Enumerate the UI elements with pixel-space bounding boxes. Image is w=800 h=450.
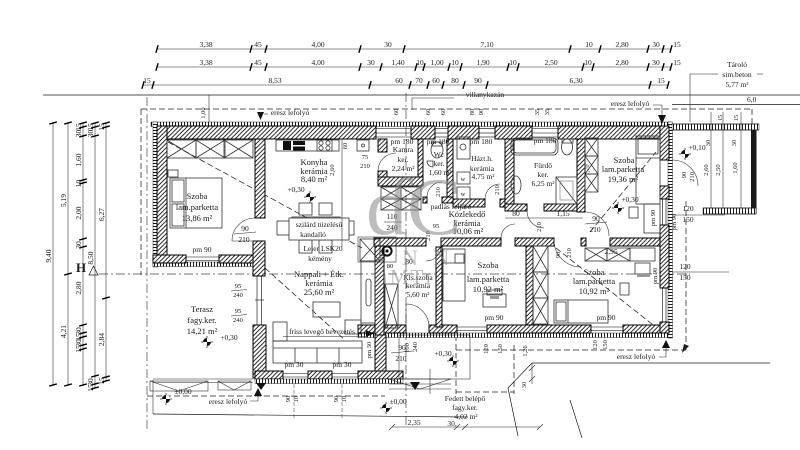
svg-text:25,60 m²: 25,60 m² [304, 287, 335, 297]
svg-text:15: 15 [717, 115, 724, 122]
svg-text:30: 30 [521, 382, 528, 389]
svg-text:95: 95 [235, 308, 242, 315]
svg-text:15: 15 [74, 345, 83, 353]
wall: kamra/wc partition [418, 139, 423, 177]
svg-text:120: 120 [592, 340, 599, 350]
svg-text:4,75 m²: 4,75 m² [471, 172, 495, 181]
svg-text:19,36 m²: 19,36 m² [608, 174, 639, 184]
svg-text:30: 30 [731, 140, 738, 147]
svg-text:friss levegő bevezetés: friss levegő bevezetés [289, 327, 355, 336]
svg-text:30: 30 [74, 130, 83, 138]
svg-text:210: 210 [566, 248, 573, 258]
bed3 door [554, 240, 581, 267]
svg-text:2,60: 2,60 [703, 164, 710, 175]
svg-text:eresz lefolyó: eresz lefolyó [271, 108, 310, 117]
wall: foyer west / nappali east [375, 246, 384, 335]
svg-text:eresz lefolyó: eresz lefolyó [617, 352, 656, 361]
terrain line bottom right [532, 362, 770, 364]
svg-text:6,0: 6,0 [747, 95, 757, 104]
svg-text:2,50: 2,50 [715, 164, 722, 175]
svg-text:15: 15 [673, 40, 681, 49]
wc door [427, 182, 442, 197]
terrain line bottom left [153, 414, 468, 417]
svg-text:35: 35 [534, 109, 541, 116]
svg-text:120: 120 [679, 262, 691, 271]
foyer main door [405, 304, 407, 327]
svg-text:pm 180: pm 180 [391, 137, 414, 146]
svg-text:ıMTı: ıMTı [382, 265, 433, 289]
svg-text:15: 15 [97, 377, 106, 385]
svg-text:10: 10 [416, 58, 424, 67]
svg-text:2,50: 2,50 [544, 58, 557, 67]
svg-text:1,90: 1,90 [476, 58, 489, 67]
svg-text:150: 150 [497, 344, 504, 354]
storage 6,0 line [672, 104, 800, 106]
svg-text:150: 150 [679, 273, 691, 282]
svg-text:1,60: 1,60 [74, 153, 83, 166]
svg-text:Leier LSK20: Leier LSK20 [303, 244, 343, 253]
svg-text:lam.parketta: lam.parketta [176, 202, 218, 212]
furdo door [527, 211, 544, 228]
svg-text:eresz lefolyó: eresz lefolyó [209, 397, 248, 406]
svg-text:2,95: 2,95 [604, 247, 617, 256]
svg-text:pm 30: pm 30 [366, 342, 373, 358]
section line horizontal H [99, 273, 690, 275]
svg-text:4,02 m²: 4,02 m² [454, 412, 478, 421]
svg-text:3,38: 3,38 [199, 40, 212, 49]
svg-text:pm 90: pm 90 [193, 245, 212, 254]
wall: nappali east at porch [375, 335, 386, 371]
svg-text:80: 80 [451, 76, 459, 85]
wall: szoba1 south [153, 255, 186, 263]
svg-text:60: 60 [342, 143, 349, 150]
svg-text:ɗC: ɗC [366, 161, 462, 252]
wall: furdo/szoba2 partition [577, 139, 585, 212]
svg-text:fagy.ker.: fagy.ker. [187, 315, 216, 325]
bed2 door [501, 224, 515, 238]
svg-text:pm 90: pm 90 [597, 313, 616, 322]
svg-text:95: 95 [235, 283, 242, 290]
svg-text:90: 90 [681, 172, 688, 179]
svg-text:1,00: 1,00 [200, 107, 207, 118]
svg-text:eresz lefolyó: eresz lefolyó [611, 99, 650, 108]
wall: bedroom/bedroom partition [526, 246, 533, 325]
svg-text:lam.parketta: lam.parketta [573, 276, 615, 286]
svg-text:30: 30 [705, 140, 712, 147]
diagonal dashed roof lines [168, 142, 362, 248]
svg-text:2,00: 2,00 [74, 206, 83, 219]
svg-text:Fedett belépő: Fedett belépő [445, 394, 486, 403]
svg-text:pm 90: pm 90 [650, 210, 657, 226]
svg-text:30: 30 [652, 40, 660, 49]
svg-text:pm 30: pm 30 [333, 360, 352, 369]
svg-text:Terasz: Terasz [191, 304, 213, 314]
svg-text:30: 30 [652, 58, 660, 67]
svg-text:3,38: 3,38 [199, 58, 212, 67]
wall: foyer/bedroom partition [436, 247, 442, 327]
roof overhang dashed outline [141, 108, 752, 110]
wall: west exterior [157, 126, 167, 262]
svg-text:150: 150 [682, 215, 694, 224]
svg-text:2,60: 2,60 [329, 164, 336, 175]
svg-text:15: 15 [86, 123, 95, 131]
svg-text:90: 90 [478, 109, 485, 116]
insulation right [668, 122, 673, 338]
svg-text:210: 210 [689, 172, 696, 182]
terrain line top [43, 94, 800, 96]
svg-text:120: 120 [483, 344, 490, 354]
foyer-corridor door [426, 246, 441, 261]
svg-text:ker.: ker. [537, 170, 548, 179]
svg-text:240: 240 [233, 292, 243, 299]
svg-text:1,60: 1,60 [732, 162, 739, 173]
svg-text:5,60 m²: 5,60 m² [406, 290, 430, 299]
svg-text:90: 90 [555, 252, 562, 259]
insulation south east wing [358, 333, 672, 338]
furdo south wall [505, 204, 527, 211]
svg-text:8,40 m²: 8,40 m² [301, 174, 328, 184]
svg-text:14,21 m²: 14,21 m² [187, 326, 218, 336]
wall: wc/hazth partition [447, 139, 453, 201]
svg-text:150: 150 [602, 340, 609, 350]
hazth south wall [453, 199, 485, 207]
svg-text:pm 180: pm 180 [534, 136, 557, 145]
svg-text:80: 80 [469, 109, 476, 116]
wall: konyha/kamra partition [378, 139, 387, 152]
svg-text:30,: 30, [447, 419, 457, 428]
svg-text:6,27: 6,27 [97, 208, 106, 221]
svg-text:5,19: 5,19 [59, 194, 68, 207]
svg-text:Tároló: Tároló [727, 60, 747, 69]
insulation: north exterior wall [151, 122, 672, 127]
storage (Tarolo) walls [672, 124, 759, 130]
svg-text:pm 30: pm 30 [285, 360, 304, 369]
svg-text:30: 30 [367, 58, 375, 67]
svg-text:30: 30 [384, 40, 392, 49]
svg-text:120: 120 [682, 204, 694, 213]
svg-text:1,70: 1,70 [584, 164, 591, 175]
svg-text:45: 45 [254, 40, 262, 49]
svg-text:10: 10 [341, 396, 348, 403]
svg-text:210: 210 [589, 225, 601, 234]
svg-text:+0,30: +0,30 [434, 349, 452, 358]
svg-text:35: 35 [544, 109, 551, 116]
svg-text:60: 60 [380, 255, 387, 262]
bed1 door [585, 212, 609, 236]
svg-text:Házt.h.: Házt.h. [471, 154, 493, 163]
section line vertical center [405, 93, 407, 425]
svg-text:sim.beton: sim.beton [722, 70, 752, 79]
svg-text:8,53: 8,53 [268, 76, 281, 85]
svg-text:pm 90: pm 90 [485, 313, 504, 322]
svg-text:5,77 m²: 5,77 m² [725, 80, 749, 89]
svg-text:15: 15 [97, 123, 106, 131]
svg-text:240: 240 [233, 317, 243, 324]
svg-text:10: 10 [451, 58, 459, 67]
svg-text:90: 90 [333, 396, 340, 403]
svg-text:4,00: 4,00 [311, 58, 324, 67]
svg-text:pm 180: pm 180 [427, 137, 450, 146]
svg-text:10,92 m²: 10,92 m² [579, 286, 610, 296]
svg-text:lam.parketta: lam.parketta [602, 164, 644, 174]
svg-text:210: 210 [536, 222, 543, 232]
svg-text:10,92 m²: 10,92 m² [473, 284, 504, 294]
svg-text:+0,30: +0,30 [287, 185, 305, 194]
svg-text:Kamra: Kamra [393, 145, 414, 154]
svg-text:fagy.ker.: fagy.ker. [452, 403, 478, 412]
svg-text:4,00: 4,00 [311, 40, 324, 49]
svg-text:10: 10 [585, 40, 593, 49]
svg-text:60: 60 [393, 109, 400, 116]
svg-text:60: 60 [395, 76, 403, 85]
svg-text:15: 15 [733, 115, 740, 122]
wall: east exterior [660, 126, 669, 160]
svg-text:80: 80 [512, 209, 520, 218]
svg-text:7,10: 7,10 [480, 40, 493, 49]
svg-text:30: 30 [74, 241, 83, 249]
svg-text:100: 100 [404, 343, 411, 353]
wall: hazth/furdo partition [505, 139, 514, 208]
svg-text:+0,10: +0,10 [688, 143, 706, 152]
svg-text:9,40: 9,40 [44, 249, 53, 262]
svg-text:90: 90 [285, 396, 292, 403]
svg-text:2,80: 2,80 [615, 40, 628, 49]
svg-text:60: 60 [440, 109, 447, 116]
svg-text:Szoba: Szoba [478, 260, 499, 270]
svg-text:45: 45 [254, 58, 262, 67]
wall: north exterior pier [411, 126, 435, 139]
svg-text:±0,00: ±0,00 [389, 397, 406, 406]
kamra door [378, 153, 396, 171]
svg-text:+0,30: +0,30 [220, 333, 238, 342]
wall: nappali south [255, 371, 283, 379]
svg-text:+0,30: +0,30 [621, 195, 639, 204]
svg-text:pm 90: pm 90 [671, 214, 678, 230]
svg-text:15: 15 [74, 123, 83, 131]
wall: nappali west (terrace side) [253, 241, 265, 276]
svg-text:2,80: 2,80 [74, 281, 83, 294]
svg-text:pm 90: pm 90 [652, 268, 659, 284]
svg-text:8,50: 8,50 [86, 251, 95, 264]
svg-text:Szoba: Szoba [187, 191, 208, 201]
svg-text:1,40: 1,40 [391, 58, 404, 67]
svg-text:H: H [76, 260, 86, 275]
svg-text:75: 75 [362, 154, 369, 161]
svg-text:2,80: 2,80 [615, 58, 628, 67]
svg-text:70: 70 [415, 76, 423, 85]
svg-text:pm 180: pm 180 [470, 137, 493, 146]
svg-text:210: 210 [395, 354, 407, 363]
svg-text:10: 10 [509, 58, 517, 67]
szoba1-nappali door [232, 218, 255, 241]
svg-text:10: 10 [74, 180, 83, 188]
svg-text:13,86 m²: 13,86 m² [182, 213, 213, 223]
svg-text:Fürdő: Fürdő [534, 161, 552, 170]
insulation left [153, 122, 158, 267]
svg-text:lam.parketta: lam.parketta [467, 274, 509, 284]
hazth door [485, 184, 500, 199]
svg-text:90: 90 [592, 214, 600, 223]
svg-text:1,26: 1,26 [522, 345, 529, 357]
svg-text:15: 15 [673, 58, 681, 67]
wall: corridor south [374, 238, 426, 246]
svg-text:2,84: 2,84 [97, 333, 106, 346]
section line vertical left [146, 97, 148, 430]
wall: szoba1/konyha partition [255, 139, 265, 218]
insulation bottom-left (szoba1 south) [153, 262, 265, 267]
svg-text:±0,00: ±0,00 [174, 387, 191, 396]
svg-text:15: 15 [143, 76, 151, 85]
svg-text:4,21: 4,21 [59, 325, 68, 338]
svg-text:6,30: 6,30 [569, 76, 582, 85]
kamra south wall [378, 177, 423, 186]
svg-text:90: 90 [241, 224, 249, 233]
svg-text:90: 90 [474, 76, 482, 85]
svg-text:240: 240 [412, 342, 419, 352]
svg-text:30: 30 [86, 130, 95, 138]
svg-text:210: 210 [494, 185, 501, 195]
svg-text:10: 10 [293, 396, 300, 403]
wall: south exterior east wing [358, 325, 406, 333]
wall: north exterior (west segment) [157, 126, 376, 139]
svg-text:210: 210 [238, 235, 250, 244]
storage door [672, 160, 698, 186]
svg-text:60: 60 [425, 109, 432, 116]
svg-text:kémény: kémény [308, 254, 332, 263]
svg-text:villanykazán: villanykazán [466, 90, 505, 99]
wc south wall [423, 197, 427, 203]
svg-text:2,35: 2,35 [407, 418, 420, 427]
svg-text:15: 15 [86, 384, 95, 392]
svg-text:60: 60 [432, 76, 440, 85]
svg-text:1,00: 1,00 [430, 58, 443, 67]
svg-text:szilárd tüzelésű: szilárd tüzelésű [296, 220, 343, 229]
svg-text:10: 10 [584, 58, 592, 67]
top wall windows [376, 129, 558, 138]
svg-text:Wc: Wc [434, 150, 445, 159]
svg-text:1,15: 1,15 [556, 209, 569, 218]
svg-text:kandalló: kandalló [300, 230, 326, 239]
svg-text:15: 15 [657, 76, 665, 85]
svg-text:6,25 m²: 6,25 m² [531, 179, 555, 188]
